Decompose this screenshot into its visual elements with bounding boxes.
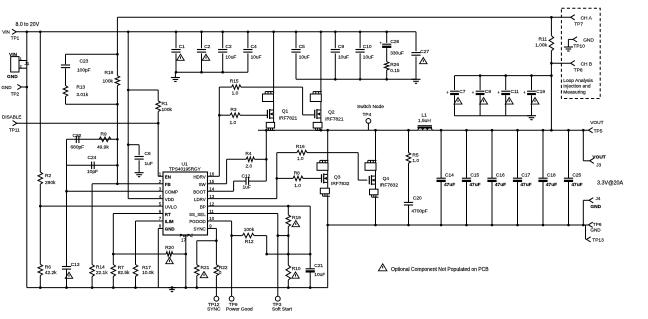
- transistor Q3 IRF7832: [327, 170, 329, 174]
- svg-text:TP8: TP8: [574, 67, 583, 73]
- svg-text:R12: R12: [245, 239, 254, 245]
- svg-text:R16: R16: [296, 144, 305, 150]
- svg-text:VOUT: VOUT: [592, 155, 605, 161]
- wire Q3 source to pgnd: [327, 196, 329, 287]
- svg-text:R4: R4: [245, 151, 251, 157]
- svg-text:12: 12: [209, 201, 214, 206]
- svg-text:1.0: 1.0: [294, 183, 301, 189]
- svg-text:100k: 100k: [103, 79, 114, 85]
- wire Q4 source to pgnd: [375, 197, 377, 225]
- wire FB corner down to R14: [91, 184, 93, 265]
- svg-text:Power Good: Power Good: [226, 307, 253, 313]
- wire feedback top rail: [117, 16, 570, 18]
- capacitor C8 optional: [479, 76, 481, 90]
- resistor R8: [277, 177, 293, 179]
- svg-text:R26: R26: [390, 62, 399, 68]
- ground below C6: [135, 172, 144, 174]
- capacitor C5: [295, 32, 297, 48]
- ground left cap rail: [171, 77, 180, 79]
- svg-text:C22: C22: [73, 133, 82, 139]
- svg-text:49.9k: 49.9k: [97, 145, 109, 151]
- svg-text:C6: C6: [145, 151, 151, 157]
- svg-text:3.01k: 3.01k: [76, 92, 88, 98]
- svg-text:10uF: 10uF: [225, 55, 236, 61]
- svg-text:C12: C12: [242, 173, 251, 179]
- resistor R12: [232, 235, 243, 237]
- svg-text:C1: C1: [179, 44, 185, 50]
- svg-text:CH A: CH A: [581, 15, 593, 21]
- svg-text:15: 15: [209, 179, 214, 184]
- svg-text:R11: R11: [539, 36, 548, 42]
- svg-text:C4: C4: [251, 44, 257, 50]
- svg-text:BP: BP: [200, 204, 206, 209]
- wire gnd vertical to bottom rail: [26, 87, 28, 288]
- capacitor C14: [440, 130, 442, 178]
- capacitor C2: [201, 32, 203, 48]
- resistor R14: [90, 265, 95, 277]
- transistor Q2 IRF7821: [320, 102, 322, 111]
- svg-text:C15: C15: [470, 173, 479, 179]
- resistor R4: [227, 158, 247, 160]
- transistor Q2 source package: [320, 118, 322, 122]
- svg-text:47uF: 47uF: [444, 182, 455, 188]
- resistor R20 optional: [113, 253, 166, 255]
- resistor R17: [135, 221, 137, 265]
- svg-text:TP1: TP1: [11, 36, 20, 41]
- wire input cap gnd rail right: [296, 78, 416, 80]
- transistor Q1 source package: [273, 118, 275, 122]
- node CH A arrow TP7: [571, 15, 575, 20]
- resistor R6: [38, 264, 43, 275]
- capacitor C27 optional: [415, 32, 417, 52]
- wire VOUT to R11 vertical: [550, 51, 552, 130]
- svg-text:R13: R13: [76, 84, 85, 90]
- wire EN vertical: [157, 123, 159, 176]
- svg-text:2: 2: [20, 65, 22, 69]
- svg-text:1.0: 1.0: [232, 90, 239, 96]
- svg-text:SYNC: SYNC: [207, 307, 221, 313]
- svg-text:R20: R20: [165, 245, 174, 251]
- node VOUT TP5: [589, 128, 593, 133]
- ground symbol bottom rail: [168, 287, 177, 289]
- capacitor C24: [91, 162, 93, 170]
- wire R2 to UVLO: [39, 184, 41, 264]
- resistor R13: [63, 86, 68, 97]
- svg-text:0.15: 0.15: [390, 68, 400, 74]
- svg-text:C17: C17: [521, 173, 530, 179]
- wire R15 to Q2 gate: [302, 87, 304, 115]
- svg-text:8.0 to 20V: 8.0 to 20V: [16, 22, 40, 28]
- wire PGND rail: [328, 224, 589, 226]
- capacitor C18: [542, 130, 544, 178]
- wire J1 pin2: [19, 67, 27, 69]
- test point TP12: [214, 296, 219, 301]
- svg-text:TP13: TP13: [592, 238, 604, 244]
- svg-text:IRF7832: IRF7832: [380, 183, 399, 189]
- svg-text:C27: C27: [420, 49, 429, 55]
- svg-text:TP4: TP4: [363, 112, 372, 118]
- svg-text:R1: R1: [162, 101, 168, 107]
- wire VIN rail: [16, 31, 416, 33]
- wire input cap gnd rail left: [175, 71, 248, 73]
- test point TP4 switch node: [367, 123, 369, 130]
- resistor R16: [277, 152, 297, 154]
- resistor R22: [215, 241, 217, 265]
- transistor Q1 IRF7821: [273, 102, 275, 111]
- svg-text:1.00k: 1.00k: [535, 43, 547, 49]
- capacitor C17: [517, 130, 519, 178]
- resistor R15: [219, 86, 231, 88]
- svg-text:R21: R21: [201, 265, 210, 271]
- svg-text:C16: C16: [496, 173, 505, 179]
- svg-text:10uF: 10uF: [299, 55, 310, 61]
- svg-text:C7: C7: [459, 89, 465, 95]
- svg-text:Optional Component Not Populat: Optional Component Not Populated on PCB: [391, 267, 489, 273]
- capacitor C9: [334, 32, 336, 48]
- wire VDD to pin4: [128, 198, 163, 200]
- wire COMP to pin3: [67, 190, 164, 192]
- capacitor C23: [65, 54, 67, 64]
- svg-text:TPS40195RGY: TPS40195RGY: [169, 166, 201, 171]
- svg-text:FB: FB: [165, 182, 171, 187]
- svg-text:R3: R3: [230, 107, 236, 113]
- svg-text:10uF: 10uF: [314, 272, 325, 278]
- capacitor C3: [222, 32, 224, 48]
- node TP13: [585, 225, 587, 239]
- wire comp lower C24: [67, 164, 118, 166]
- svg-text:TP2: TP2: [11, 91, 20, 96]
- resistor R1: [157, 90, 159, 101]
- ground optional cap bank: [527, 115, 536, 117]
- resistor R26: [384, 62, 389, 70]
- svg-text:COMP: COMP: [165, 189, 178, 194]
- svg-text:R6: R6: [45, 264, 51, 270]
- svg-text:TP5: TP5: [594, 128, 603, 134]
- connector J4 GND: [582, 200, 584, 225]
- svg-text:0: 0: [219, 270, 222, 276]
- svg-text:C9: C9: [338, 44, 344, 50]
- test point TP9: [229, 296, 234, 301]
- node GND TP10: [573, 37, 577, 42]
- svg-text:J4: J4: [596, 196, 601, 201]
- svg-text:Q3: Q3: [334, 175, 341, 181]
- loop analysis dashed box: [561, 8, 600, 98]
- transistor Q1 IRF7821 drain package: [273, 32, 275, 94]
- svg-text:GND: GND: [590, 204, 601, 210]
- svg-text:100k: 100k: [162, 107, 173, 113]
- capacitor C13 optional: [66, 191, 68, 266]
- svg-text:47uF: 47uF: [495, 182, 506, 188]
- wire R1 branch: [128, 89, 158, 91]
- svg-text:2.0: 2.0: [246, 164, 253, 170]
- inductor L1: [418, 125, 433, 127]
- wire UVLO to pin5: [40, 205, 163, 207]
- svg-text:4700pF: 4700pF: [411, 208, 427, 214]
- svg-text:GND: GND: [583, 37, 594, 43]
- transistor Q3 source package: [327, 182, 329, 188]
- svg-text:10uF: 10uF: [363, 55, 374, 61]
- svg-text:Loop Analysis: Loop Analysis: [563, 78, 593, 84]
- resistor R5 snubber: [408, 130, 410, 152]
- wire J1 gnd down: [26, 61, 28, 88]
- svg-text:GND: GND: [165, 227, 175, 232]
- svg-text:100k: 100k: [244, 227, 255, 233]
- wire BP pin12: [208, 205, 311, 207]
- svg-text:LDRV: LDRV: [194, 197, 206, 202]
- wire J1 pin1: [19, 60, 27, 62]
- IC U1 TPS40195RGY controller: [163, 172, 208, 235]
- wire SS_SEL pin11: [208, 213, 278, 215]
- resistor R18: [116, 54, 118, 75]
- capacitor C21: [309, 206, 311, 269]
- wire R16 to Q4 gate: [357, 153, 359, 181]
- svg-text:47uF: 47uF: [469, 182, 480, 188]
- svg-text:330uF: 330uF: [390, 51, 404, 57]
- wire comp loop bottom: [66, 103, 118, 105]
- wire optional cap bank bottom: [455, 115, 532, 117]
- svg-text:R9: R9: [101, 132, 107, 138]
- capacitor C12: [234, 180, 246, 182]
- svg-text:1.0: 1.0: [412, 158, 419, 164]
- svg-text:VDD: VDD: [165, 197, 174, 202]
- svg-text:C3: C3: [225, 44, 231, 50]
- svg-text:IRF7832: IRF7832: [331, 181, 350, 187]
- svg-text:680pF: 680pF: [71, 145, 85, 151]
- svg-text:R17: R17: [142, 265, 151, 271]
- wire LDRV pin13: [208, 198, 277, 200]
- svg-text:R7: R7: [118, 265, 124, 271]
- connector J3 VOUT: [582, 130, 584, 161]
- resistor R21 optional: [196, 241, 198, 265]
- svg-text:10pF: 10pF: [87, 169, 98, 175]
- transistor Q4 IRF7832 drain package: [375, 130, 377, 160]
- svg-text:C18: C18: [547, 173, 556, 179]
- svg-text:R18: R18: [105, 70, 114, 76]
- svg-text:IRF7821: IRF7821: [325, 117, 344, 123]
- wire GND pin8 vertical: [157, 228, 159, 287]
- svg-text:1.0: 1.0: [297, 156, 304, 162]
- svg-text:Measuring: Measuring: [563, 89, 586, 95]
- svg-text:1: 1: [20, 57, 22, 61]
- resistor R7: [112, 214, 114, 265]
- svg-text:100pF: 100pF: [77, 67, 91, 73]
- resistor R3: [219, 114, 230, 116]
- svg-text:Q1: Q1: [282, 108, 289, 114]
- svg-text:R14: R14: [96, 264, 105, 270]
- svg-text:82.5k: 82.5k: [118, 270, 130, 276]
- wire ILIM to pin7: [136, 220, 164, 222]
- svg-text:1uF: 1uF: [243, 185, 251, 191]
- svg-text:14: 14: [209, 186, 214, 191]
- wire EN to pin1: [158, 175, 163, 177]
- svg-text:42.2k: 42.2k: [45, 270, 57, 276]
- transistor Q2 IRF7821 drain package: [320, 32, 322, 94]
- svg-text:PGOOD: PGOOD: [189, 219, 205, 224]
- svg-text:C23: C23: [80, 59, 89, 65]
- svg-text:R10: R10: [292, 266, 301, 272]
- svg-text:280k: 280k: [45, 180, 56, 186]
- node TP6 GND: [589, 222, 593, 227]
- svg-text:RT: RT: [165, 212, 171, 217]
- svg-text:C10: C10: [363, 44, 372, 50]
- wire comp left vertical: [66, 139, 68, 191]
- svg-text:R19: R19: [292, 215, 301, 221]
- svg-text:10.0k: 10.0k: [142, 270, 154, 276]
- wire PwrPd 17 vertical: [185, 235, 187, 288]
- wire CH B tap: [551, 62, 570, 64]
- wire HDRV pin16: [208, 175, 220, 177]
- wire VDD vertical from VIN rail: [127, 32, 129, 199]
- wire switch node rail: [258, 129, 418, 131]
- wire GND pin8: [158, 227, 163, 229]
- svg-text:ILIM: ILIM: [165, 219, 174, 224]
- svg-text:J3: J3: [596, 162, 601, 167]
- svg-text:C20: C20: [413, 196, 422, 202]
- wire optional cap bank top: [455, 75, 552, 77]
- wire GND to rail: [22, 86, 27, 88]
- svg-text:GND: GND: [590, 228, 601, 233]
- resistor R10 optional: [287, 236, 289, 266]
- svg-text:Switch Node: Switch Node: [357, 104, 384, 110]
- capacitor C19 optional: [531, 76, 533, 90]
- resistor R11: [549, 36, 554, 51]
- capacitor C15: [466, 130, 468, 178]
- svg-text:1uF: 1uF: [145, 161, 153, 167]
- svg-text:SW: SW: [199, 182, 207, 187]
- wire FB node vertical: [116, 86, 118, 184]
- wire VOUT rail: [432, 129, 589, 131]
- svg-text:UVLO: UVLO: [165, 204, 178, 209]
- svg-text:DISABLE: DISABLE: [2, 115, 21, 120]
- wire switch node branch vertical: [265, 130, 267, 181]
- svg-text:C19: C19: [536, 89, 545, 95]
- wire RT to pin6: [113, 213, 163, 215]
- wire BOOT pin14: [208, 190, 234, 192]
- transistor Q4 IRF7832: [375, 170, 377, 176]
- capacitor C26: [386, 32, 388, 43]
- svg-text:1.5uH: 1.5uH: [418, 118, 431, 124]
- svg-text:Injection and: Injection and: [563, 84, 591, 90]
- svg-text:C24: C24: [88, 155, 97, 161]
- svg-text:Soft Start: Soft Start: [272, 307, 293, 313]
- svg-text:C21: C21: [314, 263, 323, 269]
- svg-text:47uF: 47uF: [571, 182, 582, 188]
- svg-text:C26: C26: [390, 39, 399, 45]
- svg-text:C13: C13: [71, 262, 80, 268]
- svg-text:10uF: 10uF: [251, 55, 262, 61]
- svg-text:GND: GND: [1, 85, 12, 90]
- capacitor C11 optional: [505, 76, 507, 90]
- wire sync bridge: [197, 240, 217, 242]
- svg-text:EN: EN: [165, 175, 171, 180]
- svg-text:22.1k: 22.1k: [96, 270, 108, 276]
- capacitor C6: [138, 145, 140, 156]
- resistor R19 optional: [287, 206, 289, 215]
- svg-text:R5: R5: [412, 153, 418, 159]
- svg-text:Q2: Q2: [328, 110, 335, 116]
- svg-text:CH B: CH B: [581, 61, 592, 67]
- svg-text:C14: C14: [445, 173, 454, 179]
- capacitor C22: [75, 136, 77, 144]
- svg-text:SYNC: SYNC: [193, 227, 205, 232]
- svg-text:47uF: 47uF: [546, 182, 557, 188]
- wire R12 corner down: [266, 236, 268, 255]
- svg-text:11: 11: [209, 209, 214, 214]
- wire comp loop top: [66, 53, 118, 55]
- capacitor C1: [175, 32, 177, 48]
- svg-text:HDRV: HDRV: [193, 175, 205, 180]
- wire FB to pin2: [92, 183, 163, 185]
- wire ss bridge to R19: [278, 235, 289, 237]
- capacitor C6 tap: [128, 144, 139, 146]
- wire comp upper: [67, 138, 118, 140]
- svg-text:VIN: VIN: [9, 52, 18, 58]
- wire J1 to VIN rail: [26, 32, 28, 61]
- svg-text:17: 17: [181, 238, 186, 243]
- svg-text:VOUT: VOUT: [590, 120, 603, 126]
- svg-text:C8: C8: [485, 89, 491, 95]
- svg-text:R15: R15: [230, 78, 239, 84]
- svg-text:TP11: TP11: [9, 128, 20, 133]
- wire SW pin15: [208, 183, 227, 185]
- svg-text:R8: R8: [294, 170, 300, 176]
- svg-text:3.3V@20A: 3.3V@20A: [597, 180, 624, 186]
- svg-text:BOOT: BOOT: [193, 189, 206, 194]
- capacitor C20: [408, 163, 410, 202]
- svg-text:L1: L1: [422, 113, 428, 119]
- wire lower link: [267, 253, 311, 255]
- test point TP3: [275, 296, 280, 301]
- svg-text:1.0: 1.0: [230, 120, 237, 126]
- capacitor C4: [247, 32, 249, 48]
- wire feedback rail drop to R18: [116, 17, 118, 54]
- wire PGOOD pin10: [208, 220, 232, 222]
- legend optional component note: [378, 264, 387, 271]
- svg-text:Q4: Q4: [383, 176, 390, 182]
- resistor R9: [99, 137, 111, 142]
- wire DISABLE to EN: [17, 122, 158, 124]
- wire SYNC pin9: [208, 227, 217, 229]
- capacitor C10: [359, 32, 361, 48]
- svg-text:C5: C5: [299, 44, 305, 50]
- connector J1: [11, 57, 19, 72]
- svg-text:SS_SEL: SS_SEL: [189, 212, 206, 217]
- capacitor C25: [568, 130, 570, 178]
- svg-text:C25: C25: [572, 173, 581, 179]
- node CH B arrow TP8: [571, 61, 575, 66]
- capacitor C7 optional: [454, 76, 456, 90]
- svg-text:C2: C2: [204, 44, 210, 50]
- svg-text:C11: C11: [511, 89, 520, 95]
- svg-text:R2: R2: [45, 173, 51, 179]
- svg-text:10uF: 10uF: [338, 55, 349, 61]
- transistor Q4 source package: [375, 184, 377, 189]
- wire bottom ground rail: [27, 287, 328, 289]
- svg-text:13: 13: [209, 194, 214, 199]
- svg-text:VIN: VIN: [2, 29, 10, 34]
- svg-text:TP10: TP10: [573, 43, 585, 49]
- svg-text:10: 10: [209, 216, 214, 221]
- svg-text:47uF: 47uF: [520, 182, 531, 188]
- resistor R2: [39, 32, 41, 172]
- svg-text:GND: GND: [7, 74, 18, 80]
- svg-text:TP7: TP7: [574, 22, 583, 28]
- capacitor C16: [491, 130, 493, 178]
- ground right cap rail: [412, 78, 421, 80]
- transistor Q3 IRF7832 drain package: [327, 130, 329, 160]
- svg-text:IRF7821: IRF7821: [279, 116, 298, 122]
- svg-text:16: 16: [209, 172, 214, 177]
